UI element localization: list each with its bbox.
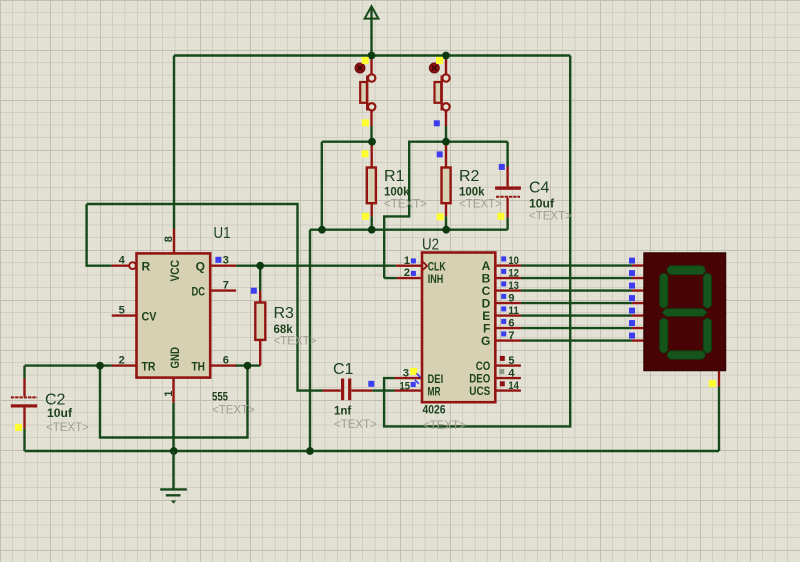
svg-text:4: 4 bbox=[119, 255, 126, 267]
svg-text:4: 4 bbox=[508, 368, 515, 380]
svg-text:<TEXT>: <TEXT> bbox=[459, 199, 502, 211]
svg-text:1: 1 bbox=[404, 255, 410, 267]
svg-text:<TEXT>: <TEXT> bbox=[384, 199, 427, 211]
svg-text:7: 7 bbox=[508, 330, 514, 342]
svg-text:4026: 4026 bbox=[423, 405, 446, 417]
svg-text:3: 3 bbox=[403, 368, 409, 380]
svg-text:2: 2 bbox=[404, 267, 410, 279]
svg-text:1nf: 1nf bbox=[334, 406, 351, 418]
svg-text:10: 10 bbox=[508, 255, 519, 267]
svg-text:<TEXT>: <TEXT> bbox=[46, 422, 89, 434]
svg-text:R2: R2 bbox=[459, 168, 480, 185]
svg-text:12: 12 bbox=[508, 268, 519, 280]
svg-text:8: 8 bbox=[163, 236, 175, 242]
svg-text:100k: 100k bbox=[384, 187, 410, 199]
svg-text:13: 13 bbox=[508, 280, 519, 292]
svg-text:UCS: UCS bbox=[469, 384, 490, 398]
svg-text:TH: TH bbox=[192, 360, 206, 374]
svg-text:TR: TR bbox=[142, 360, 156, 374]
svg-text:555: 555 bbox=[212, 392, 229, 404]
svg-text:6: 6 bbox=[508, 318, 514, 330]
svg-text:GND: GND bbox=[168, 347, 182, 369]
svg-text:<TEXT>: <TEXT> bbox=[423, 420, 466, 432]
svg-text:<TEXT>: <TEXT> bbox=[274, 336, 317, 348]
svg-text:C2: C2 bbox=[45, 392, 66, 409]
svg-text:INH: INH bbox=[428, 272, 444, 286]
svg-text:DC: DC bbox=[192, 285, 206, 299]
svg-text:MR: MR bbox=[428, 385, 441, 399]
svg-text:1: 1 bbox=[163, 391, 175, 397]
svg-text:15: 15 bbox=[400, 381, 411, 393]
svg-text:G: G bbox=[481, 334, 490, 348]
svg-text:6: 6 bbox=[223, 355, 229, 367]
svg-text:7: 7 bbox=[223, 280, 229, 292]
svg-text:100k: 100k bbox=[459, 187, 485, 199]
svg-text:14: 14 bbox=[508, 380, 519, 392]
svg-text:R1: R1 bbox=[384, 168, 405, 185]
svg-text:5: 5 bbox=[508, 355, 514, 367]
svg-text:10uf: 10uf bbox=[529, 199, 554, 211]
svg-text:C4: C4 bbox=[529, 180, 550, 197]
svg-text:R3: R3 bbox=[274, 305, 295, 322]
svg-text:U2: U2 bbox=[422, 237, 439, 254]
svg-text:10uf: 10uf bbox=[47, 408, 72, 420]
svg-text:<TEXT>: <TEXT> bbox=[212, 405, 255, 417]
svg-text:C1: C1 bbox=[333, 361, 354, 378]
svg-text:9: 9 bbox=[508, 293, 514, 305]
svg-text:5: 5 bbox=[119, 305, 125, 317]
svg-text:2: 2 bbox=[119, 355, 125, 367]
svg-text:3: 3 bbox=[223, 255, 229, 267]
svg-text:VCC: VCC bbox=[168, 260, 182, 282]
svg-text:U1: U1 bbox=[214, 225, 231, 242]
svg-text:11: 11 bbox=[508, 305, 519, 317]
svg-text:Q: Q bbox=[196, 260, 205, 274]
svg-text:68k: 68k bbox=[274, 324, 294, 336]
svg-text:CV: CV bbox=[142, 310, 157, 324]
svg-text:<TEXT>: <TEXT> bbox=[334, 419, 377, 431]
svg-text:R: R bbox=[142, 260, 151, 274]
svg-text:<TEXT>: <TEXT> bbox=[529, 211, 572, 223]
